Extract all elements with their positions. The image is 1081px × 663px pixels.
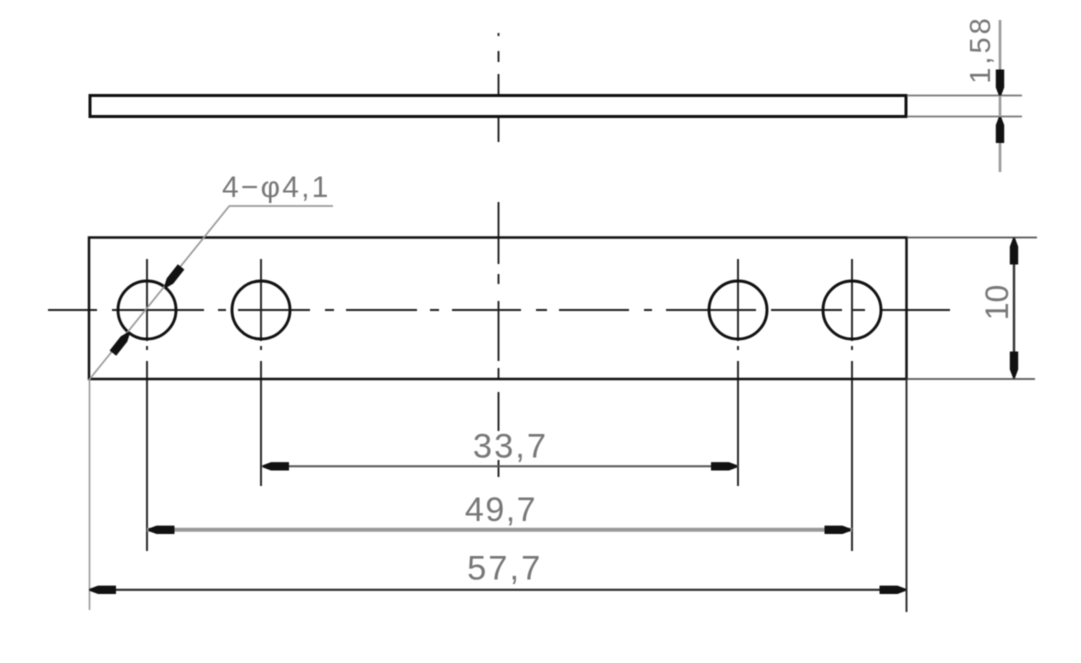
svg-text:10: 10	[979, 285, 1015, 321]
svg-text:4−φ4,1: 4−φ4,1	[222, 171, 331, 204]
svg-text:57,7: 57,7	[467, 550, 542, 588]
svg-text:1,58: 1,58	[965, 15, 997, 83]
svg-text:49,7: 49,7	[465, 491, 537, 529]
svg-text:33,7: 33,7	[473, 428, 548, 466]
